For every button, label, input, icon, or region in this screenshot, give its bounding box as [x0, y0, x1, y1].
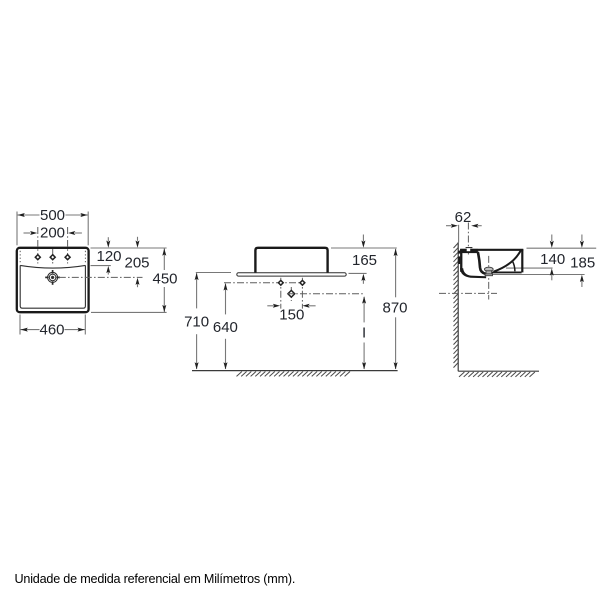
- dim 185 arrow down: [581, 235, 583, 242]
- left view: faucet hole right: [65, 255, 70, 260]
- side view: faucet hole cap line: [466, 247, 473, 249]
- side view: wall bracket upper: [458, 251, 460, 254]
- svg-text:165: 165: [352, 252, 377, 269]
- svg-text:205: 205: [124, 255, 149, 272]
- side view: faucet deck section: [460, 249, 478, 253]
- dim 450 bottom reference line: [91, 311, 167, 313]
- side view: wall line: [457, 242, 459, 371]
- side view: wall-side centerline horizontal: [439, 292, 497, 294]
- dim 205 arrow down: [137, 237, 139, 241]
- front view: drain centerline vertical: [290, 287, 292, 301]
- dim 120/205 top reference line: [91, 247, 167, 249]
- svg-text:Unidade de medida referencial: Unidade de medida referencial em Milímet…: [15, 572, 296, 586]
- left view: faucet hole centerline left: [37, 227, 39, 264]
- svg-text:I: I: [362, 325, 366, 342]
- front view: mounting hole left: [278, 280, 283, 285]
- svg-text:62: 62: [455, 209, 472, 226]
- dim 200 arrows: [24, 232, 31, 234]
- dim 62 arrows: [446, 225, 452, 227]
- left view: faucet hole middle: [50, 255, 55, 260]
- front view: floor hatching: [237, 372, 351, 377]
- dim 500 extension line right: [87, 212, 89, 246]
- svg-text:450: 450: [152, 271, 177, 288]
- left view: drain centerline horizontal: [59, 276, 143, 278]
- side view: drain fitting: [484, 267, 493, 275]
- dim 140/185 top reference line: [527, 247, 597, 249]
- front view: drain centerline horizontal: [287, 293, 365, 295]
- side view: wall hatching: [454, 243, 459, 368]
- front view: mounting hole left centerline vertical: [280, 278, 282, 309]
- dim 450 line and arrows: [163, 248, 165, 270]
- dim 62 extension line on wall face: [458, 225, 460, 243]
- svg-text:710: 710: [184, 314, 209, 331]
- front view: floor line: [192, 370, 398, 372]
- dim 165 arrow down: [362, 235, 364, 242]
- dim 185 reference line from basin underside: [489, 274, 585, 276]
- side view: floor line: [458, 370, 539, 372]
- left view: drain symbol: [45, 270, 60, 285]
- side view: bottom shell elbow: [460, 268, 486, 278]
- front view: drain outlet diamond: [288, 290, 295, 297]
- svg-text:185: 185: [570, 255, 595, 272]
- svg-text:500: 500: [40, 207, 65, 224]
- dim 710 reference line: [196, 272, 231, 274]
- svg-text:200: 200: [40, 224, 65, 241]
- front view: mounting hole right: [300, 280, 305, 285]
- dim 150 arrow right: [309, 305, 316, 307]
- svg-text:140: 140: [540, 251, 565, 268]
- dim 460 extension line left: [19, 315, 21, 335]
- svg-text:640: 640: [213, 319, 238, 336]
- dim 120 arrow down: [107, 237, 109, 241]
- dim 500 extension line left: [16, 212, 18, 246]
- side view: faucet hole centerline vertical: [467, 223, 469, 255]
- left view: hidden edge dotted right: [84, 251, 86, 264]
- side view: basin section body: [460, 249, 523, 274]
- front view: mounting holes centerline: [224, 282, 304, 284]
- front view: countertop slab: [237, 273, 346, 276]
- dim 165 top reference line: [331, 247, 397, 249]
- dim 140/185 reference line from basin lip: [506, 267, 553, 269]
- dim 140 arrow down: [551, 235, 553, 242]
- dim 185 arrow up: [581, 281, 583, 287]
- dim 150 arrow left: [267, 305, 274, 307]
- left view: basin outer rim (top view): [17, 248, 89, 312]
- svg-text:150: 150: [279, 307, 304, 324]
- left view: bowl front curved edge: [20, 265, 85, 268]
- left view: faucet hole centerline middle: [52, 249, 54, 264]
- svg-text:120: 120: [96, 248, 121, 265]
- side view: wall bracket lower: [458, 256, 460, 264]
- drain-to-floor dimension line with I mark: [363, 297, 365, 323]
- dim 165 counter reference line: [349, 272, 367, 274]
- svg-text:460: 460: [39, 322, 64, 339]
- dim 140 arrow up: [551, 273, 553, 280]
- dim 120 arrow up: [107, 271, 109, 275]
- side view: back wall bar of basin: [460, 249, 462, 271]
- dim 640 line and arrows: [225, 284, 227, 315]
- side view: floor hatching: [459, 372, 535, 377]
- front view: basin body: [255, 248, 327, 274]
- dim 205 arrow up: [137, 283, 139, 287]
- front view: mounting hole right centerline vertical: [301, 278, 303, 309]
- dim 460 extension line right: [84, 315, 86, 335]
- left view: hidden edge dotted left: [19, 251, 21, 264]
- left view: faucet hole centerline right: [67, 227, 69, 264]
- left view: faucet hole left: [35, 255, 40, 260]
- dim 500 line and arrows: [17, 214, 40, 216]
- dim 710 line and arrows: [196, 273, 198, 308]
- svg-text:870: 870: [382, 300, 407, 317]
- dim 870 line and arrows: [395, 249, 397, 297]
- left view: basin inner bowl: [20, 265, 85, 308]
- side view: drain centerline vertical: [488, 256, 490, 300]
- dim 460 line and arrows: [20, 329, 40, 331]
- dim 165 arrow up: [362, 279, 364, 284]
- dim 120 bottom reference line: [91, 265, 111, 267]
